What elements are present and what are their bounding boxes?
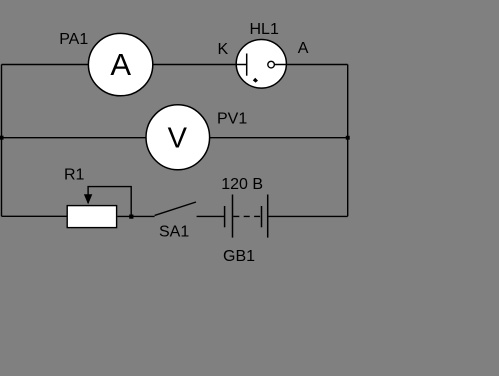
svg-text:R1: R1 [64,167,85,184]
svg-text:PV1: PV1 [217,111,247,128]
wire middle rail (voltmeter branch) [2,137,348,139]
battery GB1 short electrode 2 [261,206,263,227]
junction left (voltmeter branch to left vertical) [0,136,4,140]
svg-text:A: A [110,47,131,82]
voltmeter PV1 body [146,105,210,170]
svg-text:A: A [298,40,309,57]
junction right (voltmeter branch to right vertical) [346,136,350,140]
wire rheostat to switch [117,215,154,217]
wire right vertical [347,65,349,217]
battery GB1 tall electrode 1 [232,195,234,238]
battery GB1 short electrode 1 [224,206,226,227]
switch SA1 blade [155,202,196,215]
junction wiper tap [129,215,133,219]
wire lamp anode to top-right corner [275,64,348,66]
wire battery to bottom-right corner [268,215,347,217]
lamp HL1 filament dot [253,78,258,83]
lamp HL1 cathode bar [246,54,248,76]
svg-text:GB1: GB1 [223,248,255,265]
lamp HL1 envelope [236,40,286,89]
svg-text:K: K [218,41,229,58]
wire top rail (node: left corner to lamp cathode) [2,64,247,66]
svg-text:PA1: PA1 [59,31,88,48]
rheostat R1 body [67,206,116,228]
rheostat R1 wiper arrowhead [84,194,92,204]
rheostat R1 wiper wire [88,187,131,217]
ammeter PA1 body [88,33,152,95]
svg-text:120 В: 120 В [221,176,263,193]
battery GB1 tall electrode 2 [267,195,269,238]
svg-text:SA1: SA1 [159,224,189,241]
svg-text:V: V [168,122,188,154]
wire switch to battery [197,215,225,217]
svg-text:HL1: HL1 [250,21,279,38]
battery GB1 dashed link [233,215,261,217]
lamp HL1 anode circle [268,61,275,68]
wire left vertical [1,65,3,217]
wire bottom-left (corner to rheostat) [2,215,67,217]
